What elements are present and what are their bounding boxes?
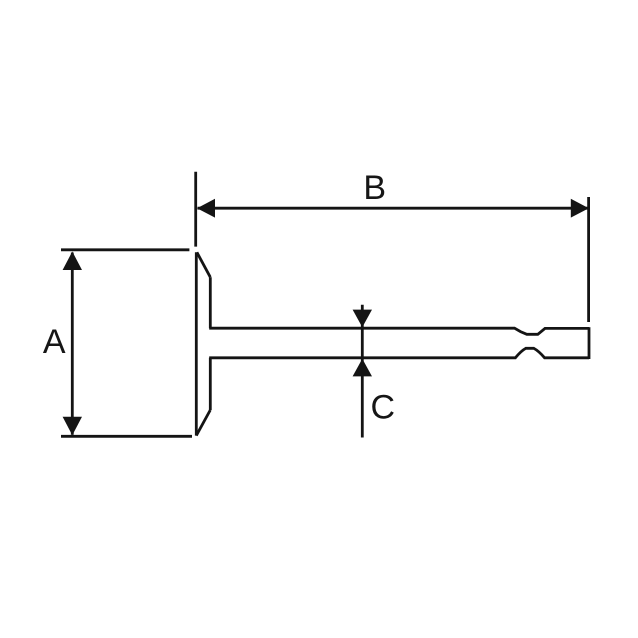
svg-text:B: B <box>363 169 386 207</box>
arrowhead A up <box>63 252 82 271</box>
stem bottom line with keeper groove bump <box>209 348 589 358</box>
dimension B line <box>198 207 589 210</box>
valve head bottom fillet <box>196 410 210 436</box>
arrowhead B right <box>571 199 589 218</box>
valve head top fillet <box>197 252 210 277</box>
arrowhead A down <box>63 417 82 436</box>
dimension A vertical line <box>71 253 74 435</box>
stem right end cap <box>588 327 591 359</box>
dimension A top extension line <box>61 248 189 251</box>
dimension A bottom extension line <box>61 435 192 438</box>
valve face line <box>195 252 198 435</box>
arrowhead C up <box>353 359 372 377</box>
dimension B right extension <box>587 197 590 322</box>
arrowhead C down <box>353 310 372 328</box>
arrowhead B left <box>197 199 215 218</box>
svg-text:C: C <box>371 389 396 427</box>
svg-text:A: A <box>43 323 66 361</box>
dimension B left extension (above head) <box>194 172 197 247</box>
valve head back upper vertical <box>209 277 212 328</box>
valve head back lower vertical <box>209 358 212 410</box>
dimension C vertical line <box>361 305 364 438</box>
stem top line with keeper groove <box>209 328 589 334</box>
